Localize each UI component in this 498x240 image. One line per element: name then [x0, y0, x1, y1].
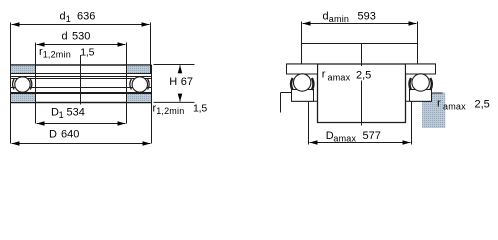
H extension line top	[154, 64, 195, 66]
bearing top face line (right view)	[287, 63, 436, 65]
ball top tangent line	[11, 76, 152, 78]
housing washer section right (gray)	[127, 94, 152, 103]
housing seat line left	[292, 100, 318, 102]
svg-text:1: 1	[66, 14, 71, 24]
housing washer section left (gray)	[11, 94, 36, 103]
H arrow down	[179, 94, 181, 102]
svg-text:636: 636	[77, 11, 95, 23]
extension line right d1	[150, 23, 152, 74]
svg-text:1,5: 1,5	[80, 47, 94, 59]
cage arc right of left ball	[30, 79, 31, 90]
cage bar left of right ball (right view)	[410, 78, 411, 90]
cage arc left of left ball	[13, 79, 14, 90]
extension line left outer (d1 top / D bottom)	[10, 23, 12, 144]
dimension line d 530	[37, 44, 126, 46]
da extension line right	[417, 22, 419, 64]
centerline right view upper segment	[361, 44, 363, 66]
shaft bottom end line	[317, 122, 406, 124]
cage bar right of left ball (right view)	[312, 78, 313, 90]
housing washer block left (right view)	[292, 90, 314, 102]
svg-text:amax: amax	[328, 72, 351, 82]
shaft side right	[405, 64, 407, 123]
centerline left view	[80, 55, 82, 105]
bearing bottom face line	[11, 102, 152, 104]
cage arc right of right ball	[148, 79, 149, 90]
bore edge line left (d / D1)	[35, 43, 37, 124]
svg-text:d: d	[62, 31, 68, 43]
Da extension line right	[411, 101, 413, 144]
svg-text:amin: amin	[329, 14, 349, 24]
svg-text:577: 577	[363, 130, 381, 142]
shaft washer bottom line	[11, 73, 152, 75]
svg-text:r: r	[322, 69, 326, 81]
svg-text:d: d	[323, 11, 329, 23]
housing corner gray block right	[422, 93, 445, 129]
ball right (right view)	[412, 74, 429, 91]
dimension line D1 534	[37, 123, 126, 125]
svg-text:1,2min: 1,2min	[156, 106, 184, 116]
shaft shoulder face line	[302, 43, 418, 45]
cage arc left of right ball	[130, 79, 131, 90]
svg-text:534: 534	[67, 107, 85, 119]
svg-text:r: r	[437, 98, 441, 110]
cage bottom line	[11, 87, 152, 89]
ball left section	[15, 77, 30, 92]
dimension line Da max 577	[310, 142, 411, 144]
svg-text:d: d	[60, 11, 66, 23]
svg-text:67: 67	[181, 76, 193, 88]
housing seat line right	[406, 100, 432, 102]
shaft washer section right (gray)	[127, 65, 151, 74]
housing wall left	[280, 93, 282, 113]
dimension line D 640	[12, 143, 151, 145]
shaft side left	[317, 64, 319, 123]
housing washer block right (right view)	[410, 90, 432, 102]
svg-text:H: H	[169, 76, 177, 88]
shaft washer block left (right view)	[287, 64, 318, 74]
svg-text:1,5: 1,5	[193, 103, 207, 115]
svg-text:593: 593	[358, 11, 376, 23]
centerline right view lower segment	[361, 81, 363, 126]
bearing top face line	[11, 64, 152, 66]
housing shoulder face right	[432, 92, 443, 94]
Da extension line left	[308, 101, 310, 144]
cage bar left of left ball (right view)	[291, 78, 292, 90]
da extension line left	[301, 22, 303, 64]
ball right section	[132, 77, 147, 92]
svg-text:amax: amax	[443, 101, 466, 111]
ball left (right view)	[294, 74, 311, 91]
svg-text:amax: amax	[333, 134, 356, 144]
H extension line bottom	[154, 101, 195, 103]
outer silhouette right / D extension	[151, 65, 153, 144]
svg-text:1: 1	[59, 110, 64, 120]
svg-text:2,5: 2,5	[475, 99, 490, 111]
cage bar right of right ball (right view)	[430, 78, 431, 90]
svg-text:2,5: 2,5	[356, 70, 371, 82]
svg-text:530: 530	[72, 31, 90, 43]
bore edge line right (d / D1)	[126, 43, 128, 124]
H arrow up	[179, 65, 181, 73]
svg-text:1,2min: 1,2min	[43, 50, 71, 60]
dimension line da min 593	[303, 23, 417, 25]
svg-text:640: 640	[61, 129, 79, 141]
ball bottom tangent line	[11, 92, 152, 94]
dimension line d1 636	[12, 24, 150, 26]
housing washer top line	[11, 93, 152, 95]
shaft washer section left (gray)	[11, 65, 36, 74]
cage top line	[11, 78, 152, 80]
housing shoulder face left	[281, 92, 292, 94]
svg-text:D: D	[49, 129, 57, 141]
shaft washer block right (right view)	[406, 64, 436, 74]
